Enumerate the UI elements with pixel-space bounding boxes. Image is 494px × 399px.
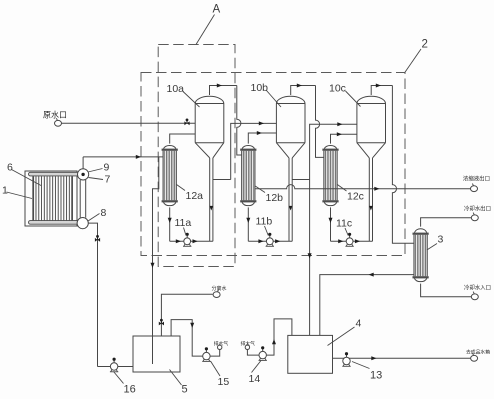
svg-text:10c: 10c <box>329 83 346 95</box>
svg-text:11c: 11c <box>336 218 352 230</box>
svg-text:16: 16 <box>124 384 136 396</box>
svg-text:6: 6 <box>7 162 13 174</box>
svg-text:12a: 12a <box>186 190 204 202</box>
svg-text:13: 13 <box>370 370 382 382</box>
svg-text:冷却水出口: 冷却水出口 <box>464 204 491 212</box>
svg-text:1: 1 <box>2 185 8 197</box>
svg-text:9: 9 <box>104 162 110 174</box>
svg-text:2: 2 <box>422 39 428 51</box>
svg-text:7: 7 <box>105 174 111 186</box>
svg-text:12b: 12b <box>266 192 284 204</box>
svg-text:排大气: 排大气 <box>214 340 229 347</box>
svg-text:排大气: 排大气 <box>241 340 256 347</box>
svg-text:冷却水入口: 冷却水入口 <box>464 284 491 292</box>
svg-text:10a: 10a <box>167 83 185 95</box>
svg-text:8: 8 <box>101 207 107 219</box>
svg-text:3: 3 <box>438 234 444 246</box>
svg-text:浓缩液出口: 浓缩液出口 <box>463 175 490 183</box>
svg-text:分离水: 分离水 <box>212 285 227 292</box>
svg-text:11a: 11a <box>175 217 192 229</box>
svg-text:15: 15 <box>218 376 230 388</box>
svg-text:A: A <box>213 4 221 16</box>
svg-text:10b: 10b <box>251 82 269 94</box>
svg-text:原水口: 原水口 <box>43 110 67 120</box>
svg-text:去成品水箱: 去成品水箱 <box>466 349 490 356</box>
svg-text:5: 5 <box>182 384 188 396</box>
svg-text:14: 14 <box>249 373 261 385</box>
svg-text:4: 4 <box>356 318 362 330</box>
svg-text:11b: 11b <box>256 216 273 228</box>
svg-text:12c: 12c <box>347 191 364 203</box>
